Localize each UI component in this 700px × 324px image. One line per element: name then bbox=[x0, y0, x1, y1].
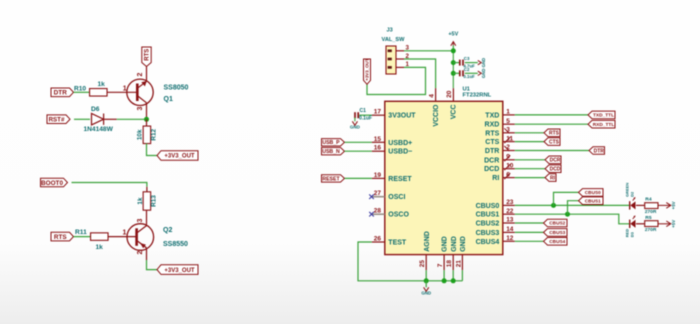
svg-text:AGND: AGND bbox=[424, 231, 431, 252]
svg-text:Q1: Q1 bbox=[164, 96, 173, 103]
svg-text:GND: GND bbox=[481, 58, 486, 68]
svg-text:R5: R5 bbox=[645, 215, 652, 221]
svg-text:RTS: RTS bbox=[485, 130, 499, 137]
svg-text:BOOT0: BOOT0 bbox=[41, 180, 63, 187]
svg-text:C3: C3 bbox=[464, 56, 470, 61]
svg-text:1N4148W: 1N4148W bbox=[84, 126, 114, 133]
svg-text:CBUS2: CBUS2 bbox=[476, 221, 500, 228]
svg-text:TXD: TXD bbox=[485, 112, 499, 119]
svg-text:5: 5 bbox=[506, 118, 510, 125]
svg-text:RXD: RXD bbox=[485, 122, 500, 129]
svg-text:GND: GND bbox=[421, 291, 431, 296]
svg-text:19: 19 bbox=[374, 172, 382, 179]
svg-text:17: 17 bbox=[374, 109, 382, 116]
svg-text:D3: D3 bbox=[630, 231, 635, 237]
svg-text:CBUS4: CBUS4 bbox=[476, 239, 500, 246]
svg-text:USBD+: USBD+ bbox=[388, 140, 412, 147]
svg-text:10: 10 bbox=[506, 162, 514, 169]
svg-text:DCD: DCD bbox=[550, 167, 561, 173]
svg-text:14: 14 bbox=[506, 226, 514, 233]
svg-text:TXD_TTL: TXD_TTL bbox=[593, 113, 614, 119]
svg-text:+3V3_OUT: +3V3_OUT bbox=[164, 268, 195, 274]
svg-text:+5V: +5V bbox=[448, 32, 458, 38]
svg-text:+3V3_OUT: +3V3_OUT bbox=[365, 58, 370, 80]
svg-text:GND: GND bbox=[451, 236, 458, 252]
svg-text:RTS: RTS bbox=[145, 49, 151, 61]
svg-text:C2: C2 bbox=[464, 67, 470, 72]
svg-text:R4: R4 bbox=[645, 197, 652, 203]
svg-text:GND: GND bbox=[460, 236, 467, 252]
svg-text:CBUS0: CBUS0 bbox=[585, 190, 601, 195]
svg-text:SS8550: SS8550 bbox=[163, 241, 188, 248]
svg-text:3: 3 bbox=[137, 218, 144, 222]
svg-text:3V3OUT: 3V3OUT bbox=[388, 113, 416, 120]
svg-text:1: 1 bbox=[123, 86, 127, 93]
svg-text:27: 27 bbox=[374, 190, 382, 197]
svg-text:USBD−: USBD− bbox=[388, 149, 412, 156]
svg-text:25: 25 bbox=[419, 260, 426, 268]
svg-text:CBUS1: CBUS1 bbox=[476, 212, 500, 219]
svg-text:D6: D6 bbox=[91, 106, 100, 113]
svg-text:28: 28 bbox=[374, 208, 382, 215]
svg-text:VAL_SW: VAL_SW bbox=[382, 37, 406, 43]
svg-text:J3: J3 bbox=[387, 28, 393, 34]
svg-text:R10: R10 bbox=[74, 86, 86, 93]
svg-text:0.1uF: 0.1uF bbox=[359, 116, 372, 122]
svg-text:DCD: DCD bbox=[484, 166, 499, 173]
svg-text:2: 2 bbox=[137, 250, 144, 254]
svg-text:RST#: RST# bbox=[49, 116, 65, 123]
svg-text:CBUS4: CBUS4 bbox=[549, 239, 565, 244]
svg-text:CBUS2: CBUS2 bbox=[549, 221, 565, 226]
svg-text:0.1uF: 0.1uF bbox=[463, 74, 475, 79]
svg-text:1k: 1k bbox=[137, 197, 144, 205]
svg-text:RTS: RTS bbox=[54, 234, 68, 241]
svg-text:CTS: CTS bbox=[485, 139, 499, 146]
svg-text:23: 23 bbox=[506, 199, 514, 206]
svg-text:VCCIO: VCCIO bbox=[433, 104, 440, 127]
svg-text:CBUS0: CBUS0 bbox=[476, 203, 500, 210]
svg-text:GND: GND bbox=[442, 236, 449, 252]
svg-text:R11: R11 bbox=[75, 229, 87, 236]
svg-text:CTS: CTS bbox=[549, 139, 560, 145]
svg-text:DCR: DCR bbox=[550, 158, 561, 164]
svg-text:26: 26 bbox=[374, 236, 382, 243]
svg-text:22: 22 bbox=[506, 208, 514, 215]
svg-text:C1: C1 bbox=[360, 108, 367, 114]
svg-text:U1: U1 bbox=[463, 87, 471, 93]
svg-text:RESET: RESET bbox=[322, 176, 340, 182]
svg-text:CBUS1: CBUS1 bbox=[585, 198, 601, 203]
svg-text:1: 1 bbox=[123, 230, 127, 237]
svg-text:RESET: RESET bbox=[388, 176, 412, 183]
svg-text:10k: 10k bbox=[136, 129, 143, 140]
svg-text:1k: 1k bbox=[98, 81, 106, 88]
svg-text:TEST: TEST bbox=[388, 240, 407, 247]
svg-text:20: 20 bbox=[446, 90, 453, 98]
svg-text:1k: 1k bbox=[96, 244, 104, 251]
svg-text:1: 1 bbox=[506, 109, 510, 116]
svg-text:CBUS3: CBUS3 bbox=[549, 230, 565, 235]
svg-text:+5V: +5V bbox=[671, 220, 676, 228]
svg-text:3: 3 bbox=[137, 106, 144, 110]
svg-text:RTS: RTS bbox=[549, 131, 560, 137]
svg-text:OSCI: OSCI bbox=[388, 194, 405, 201]
svg-text:13: 13 bbox=[506, 217, 514, 224]
svg-text:2: 2 bbox=[137, 72, 144, 76]
svg-text:R12: R12 bbox=[151, 128, 158, 140]
svg-text:VCC: VCC bbox=[451, 105, 458, 120]
svg-text:RI: RI bbox=[550, 175, 556, 181]
svg-text:11: 11 bbox=[506, 135, 513, 142]
svg-text:USB_N: USB_N bbox=[322, 149, 340, 155]
svg-text:DTR: DTR bbox=[54, 90, 68, 97]
svg-text:DCR: DCR bbox=[484, 157, 499, 164]
svg-text:270R: 270R bbox=[645, 209, 657, 215]
svg-text:+5V: +5V bbox=[671, 201, 676, 209]
svg-text:Q2: Q2 bbox=[163, 227, 172, 234]
svg-text:270R: 270R bbox=[645, 227, 657, 233]
svg-text:15: 15 bbox=[374, 136, 382, 143]
svg-text:R13: R13 bbox=[151, 195, 158, 207]
svg-text:CBUS3: CBUS3 bbox=[476, 230, 500, 237]
svg-text:RXD_TTL: RXD_TTL bbox=[593, 122, 615, 128]
svg-text:18: 18 bbox=[446, 260, 453, 268]
svg-text:16: 16 bbox=[374, 145, 382, 152]
svg-text:4: 4 bbox=[428, 94, 435, 98]
svg-text:12: 12 bbox=[506, 235, 514, 242]
svg-text:DTR: DTR bbox=[485, 148, 499, 155]
svg-text:7: 7 bbox=[437, 263, 444, 267]
svg-text:RI: RI bbox=[492, 175, 499, 182]
svg-text:SS8050: SS8050 bbox=[164, 85, 189, 92]
svg-text:21: 21 bbox=[455, 260, 462, 268]
svg-text:GND: GND bbox=[481, 69, 486, 79]
svg-text:+3V3_OUT: +3V3_OUT bbox=[164, 154, 195, 160]
svg-text:GND: GND bbox=[350, 125, 361, 130]
svg-text:DTR: DTR bbox=[594, 148, 605, 154]
svg-text:USB_P: USB_P bbox=[322, 140, 340, 146]
svg-text:D2: D2 bbox=[630, 191, 635, 197]
svg-text:FT232RNL: FT232RNL bbox=[463, 93, 492, 99]
svg-text:OSCO: OSCO bbox=[388, 212, 409, 219]
